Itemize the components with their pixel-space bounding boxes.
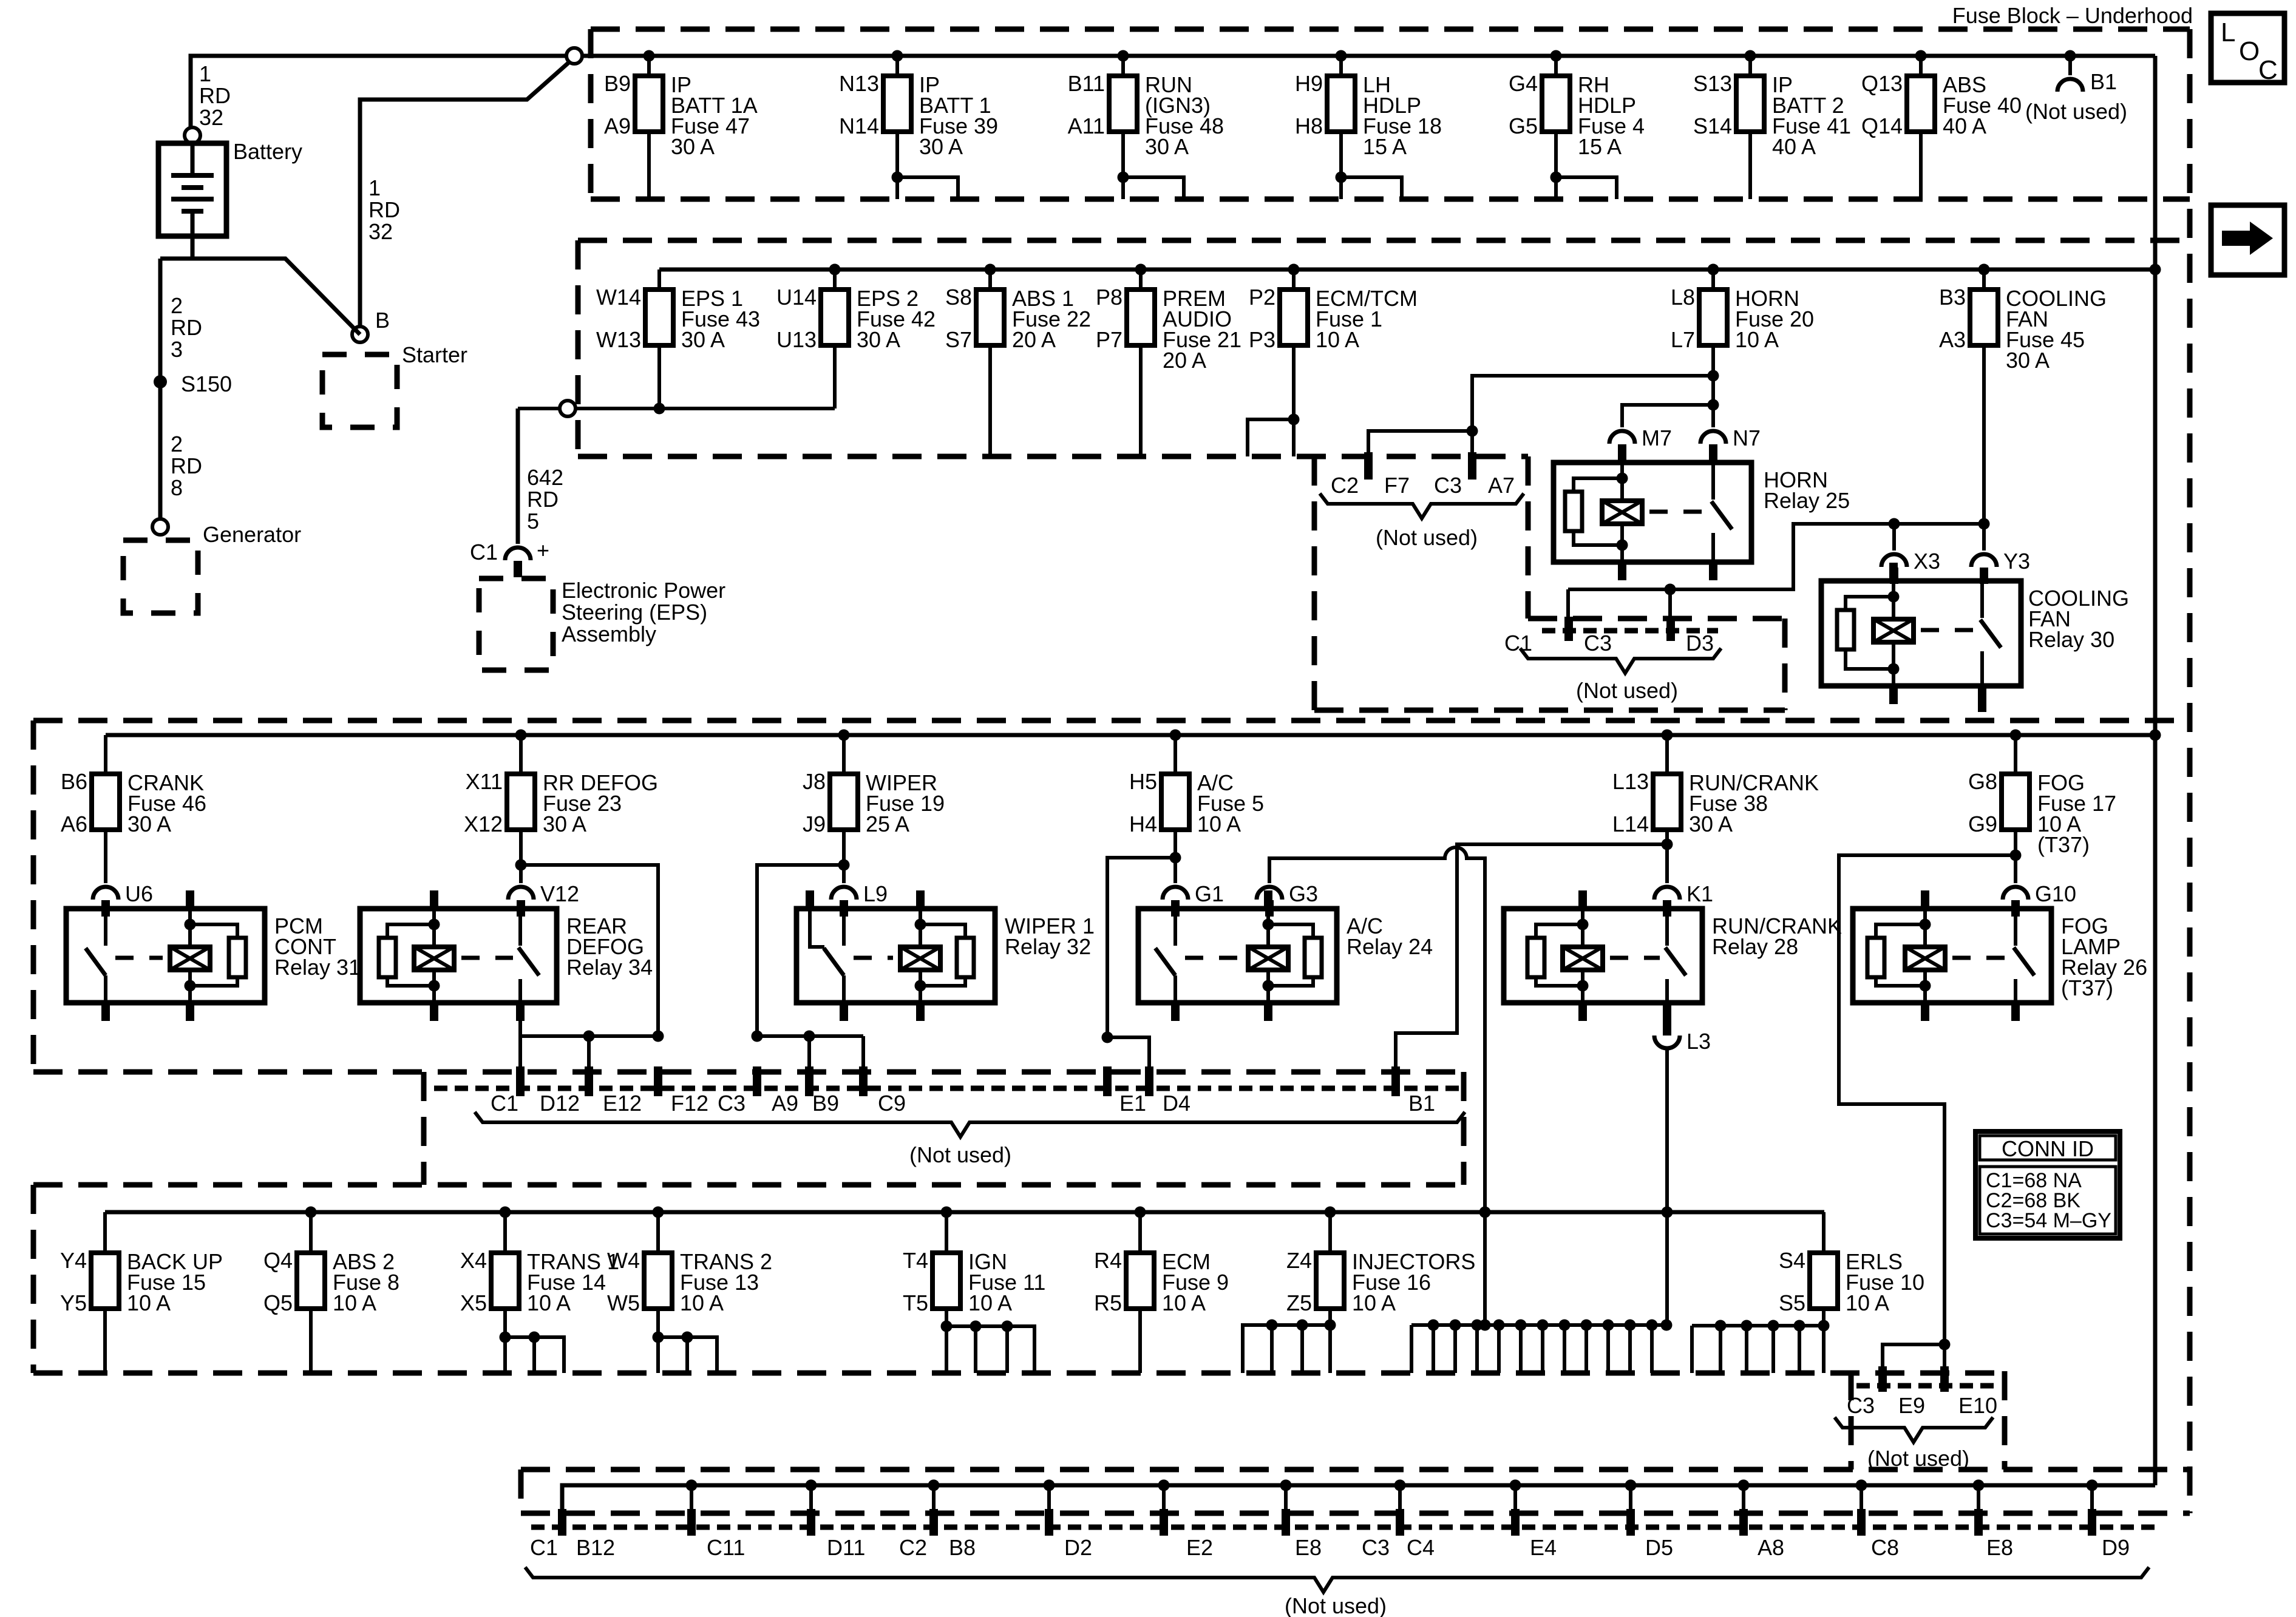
node bottom connector junction E8b <box>1973 1480 1985 1491</box>
node bottom connector junction D9 <box>2087 1480 2098 1491</box>
svg-text:32: 32 <box>369 219 393 244</box>
terminal A8 <box>1739 1509 1748 1536</box>
node row2/row1 feed junction <box>2150 264 2161 276</box>
connector V12 <box>508 887 534 900</box>
E9/E10 box left border <box>1849 1371 1854 1470</box>
svg-text:Q14: Q14 <box>1861 114 1903 138</box>
svg-text:L9: L9 <box>863 881 888 906</box>
svg-text:E8: E8 <box>1295 1535 1322 1560</box>
fuse Fuse 38 (RUN/CRANK) <box>1612 735 1819 836</box>
node bottom bus junction Z4 <box>1325 1207 1336 1218</box>
wire below ABS 2 fuse <box>309 1309 313 1373</box>
node bottom bus junction W4 <box>653 1207 664 1218</box>
svg-text:C1: C1 <box>470 540 498 564</box>
relay RUN/CRANK Relay 28 <box>1504 890 1842 1021</box>
svg-text:A3: A3 <box>1939 327 1966 352</box>
svg-text:A8: A8 <box>1758 1535 1784 1560</box>
svg-text:Electronic Power: Electronic Power <box>562 578 725 603</box>
svg-text:Assembly: Assembly <box>562 622 656 646</box>
fuse Fuse 42 (EPS 2) <box>776 269 936 352</box>
svg-text:W14: W14 <box>596 285 641 310</box>
fuse Fuse 11 (IGN) <box>903 1212 1045 1315</box>
svg-text:10 A: 10 A <box>1162 1290 1206 1315</box>
node row2 bus junction B3 <box>1978 264 1990 276</box>
fuse Fuse 40 (ABS) <box>1861 56 2022 138</box>
svg-text:642: 642 <box>527 465 563 490</box>
terminal D3 <box>1666 617 1675 641</box>
svg-text:20 A: 20 A <box>1012 327 1056 352</box>
node bottom bus junction Q4 <box>305 1207 317 1218</box>
svg-text:CONN ID: CONN ID <box>2002 1136 2094 1161</box>
svg-text:32: 32 <box>199 105 223 130</box>
node bottom connector junction D2 <box>1044 1480 1055 1491</box>
bottom fuse box top border <box>33 1182 1464 1188</box>
node bottom connector junction C11 <box>686 1480 698 1491</box>
svg-text:P7: P7 <box>1096 327 1123 352</box>
wire below INJECTORS fuse with comb <box>1328 1309 1332 1373</box>
svg-text:C3: C3 <box>1362 1535 1390 1560</box>
fuse Fuse 39 (IP BATT 1) <box>839 56 998 159</box>
brace not-used C2/F7/C3/A7 <box>1320 493 1524 518</box>
svg-text:Relay 34: Relay 34 <box>566 955 653 980</box>
fuse block box row1 bottom border <box>591 197 2190 202</box>
wire below BACK UP fuse <box>103 1309 107 1373</box>
svg-text:Relay 32: Relay 32 <box>1005 934 1091 959</box>
svg-text:(Not used): (Not used) <box>2025 99 2127 124</box>
svg-text:L8: L8 <box>1671 285 1695 310</box>
connector M7 <box>1609 431 1635 444</box>
generator box <box>123 540 198 613</box>
connector B1 (not used) <box>2068 56 2072 75</box>
wire below HORN fuse <box>1711 345 1715 427</box>
svg-text:C11: C11 <box>707 1535 745 1560</box>
svg-text:B6: B6 <box>61 769 87 794</box>
svg-text:10 A: 10 A <box>680 1290 724 1315</box>
terminal B9 <box>805 1066 813 1096</box>
svg-text:P2: P2 <box>1249 285 1275 310</box>
svg-text:(Not used): (Not used) <box>909 1142 1011 1167</box>
svg-text:25 A: 25 A <box>866 812 909 836</box>
svg-text:RD: RD <box>199 83 231 108</box>
bottom connector box top border <box>521 1467 2190 1473</box>
wire below Fuse 40 <box>1919 132 1923 199</box>
terminal A9 <box>753 1066 761 1096</box>
wire D12 drop <box>518 1036 522 1066</box>
node row1 bus junction N13 <box>892 50 903 62</box>
svg-text:Starter: Starter <box>402 342 467 367</box>
svg-text:G10: G10 <box>2035 881 2076 906</box>
svg-text:T4: T4 <box>903 1248 928 1273</box>
wire HORN to A7/F7 stubs <box>1472 376 1713 431</box>
not-used connector box C1 pin line <box>1542 628 1718 634</box>
starter box <box>322 354 397 427</box>
node row2 bus junction S8 <box>985 264 996 276</box>
terminal D9 <box>2088 1509 2096 1536</box>
fuse Fuse 43 (EPS 1) <box>596 269 760 352</box>
wire RUN/CRANK branch to B1 stub <box>1396 844 1667 1066</box>
starter B terminal circle <box>352 327 368 342</box>
wire row1 feed down right side <box>2153 56 2158 1485</box>
terminal D12 <box>516 1066 525 1096</box>
svg-text:U14: U14 <box>776 285 817 310</box>
terminal E8b <box>1974 1509 1983 1536</box>
wire below Fuse 48 with stub <box>1121 132 1125 199</box>
node row1 bus junction B1 <box>2065 50 2076 62</box>
fuse block box row1 left border <box>588 29 594 199</box>
terminal C3 <box>1564 617 1573 641</box>
splice circle at fuse block entry <box>566 48 582 64</box>
svg-text:W4: W4 <box>607 1248 640 1273</box>
node bottom connector junction D11 <box>806 1480 817 1491</box>
relay box section left border <box>31 720 36 1072</box>
svg-text:W5: W5 <box>607 1290 640 1315</box>
not-used connector box C1 top border <box>1528 616 1785 622</box>
svg-text:30 A: 30 A <box>681 327 725 352</box>
svg-text:(Not used): (Not used) <box>1867 1446 1969 1471</box>
wire below CRANK fuse <box>104 830 107 883</box>
svg-text:G5: G5 <box>1509 114 1538 138</box>
svg-text:U13: U13 <box>776 327 817 352</box>
svg-text:S4: S4 <box>1779 1248 1805 1273</box>
wire below A/C fuse <box>1173 830 1177 883</box>
bottom fuse box bottom border <box>33 1371 2005 1376</box>
svg-text:10 A: 10 A <box>1197 812 1241 836</box>
wire below IGN fuse with comb <box>945 1309 948 1373</box>
svg-text:C1: C1 <box>1504 631 1532 656</box>
svg-text:20 A: 20 A <box>1163 348 1206 373</box>
LOC legend box <box>2211 13 2284 85</box>
wire A/C branch to E1/D4 <box>1107 858 1175 1037</box>
svg-text:D9: D9 <box>2102 1535 2130 1560</box>
svg-text:10 A: 10 A <box>527 1290 571 1315</box>
svg-text:N14: N14 <box>839 114 879 138</box>
node EPS output junction <box>654 403 665 415</box>
terminal A7 <box>1468 452 1476 480</box>
wire EPS1-EPS2 link to EPS assembly <box>518 407 835 410</box>
svg-text:X4: X4 <box>460 1248 487 1273</box>
svg-text:10 A: 10 A <box>1846 1290 1889 1315</box>
wire cooling fan switch output stub <box>1978 704 1986 712</box>
connector G10 <box>2003 887 2028 900</box>
svg-text:K1: K1 <box>1686 881 1713 906</box>
svg-text:X12: X12 <box>464 812 503 836</box>
wire below Fuse 41 <box>1748 132 1752 199</box>
connector C1 + EPS assembly <box>505 547 531 560</box>
svg-text:A11: A11 <box>1068 114 1105 138</box>
svg-text:10 A: 10 A <box>333 1290 376 1315</box>
svg-text:D5: D5 <box>1645 1535 1673 1560</box>
connector K1 <box>1654 887 1680 900</box>
node row1 bus junction S13 <box>1745 50 1756 62</box>
svg-text:C3: C3 <box>1584 631 1612 656</box>
svg-text:N13: N13 <box>839 71 879 96</box>
brace not-used stub row <box>475 1112 1465 1137</box>
svg-text:W13: W13 <box>596 327 641 352</box>
svg-text:(Not used): (Not used) <box>1376 525 1478 550</box>
relay REAR DEFOG Relay 34 <box>360 890 653 1021</box>
svg-text:(Not used): (Not used) <box>1576 678 1678 703</box>
terminal B1 <box>1391 1066 1400 1096</box>
svg-text:RD: RD <box>527 487 559 512</box>
svg-text:Steering (EPS): Steering (EPS) <box>562 600 707 625</box>
svg-text:B3: B3 <box>1939 285 1966 310</box>
wire RR DEFOG branch to F12 <box>521 865 658 1036</box>
svg-text:X11: X11 <box>466 769 503 794</box>
svg-text:B1: B1 <box>1408 1091 1435 1116</box>
svg-text:A9: A9 <box>604 114 631 138</box>
svg-text:2: 2 <box>171 432 183 456</box>
svg-text:8: 8 <box>171 475 183 500</box>
wire WIPER branch to A9 <box>757 865 844 1036</box>
svg-text:10 A: 10 A <box>968 1290 1012 1315</box>
svg-text:D4: D4 <box>1163 1091 1190 1116</box>
fuse Fuse 19 (WIPER) <box>803 735 945 836</box>
svg-text:15 A: 15 A <box>1578 134 1622 159</box>
bottom connector box bottom border <box>521 1511 2190 1516</box>
terminal E8 <box>1282 1509 1290 1536</box>
svg-text:S150: S150 <box>181 371 232 396</box>
node bottom connector junction B8 <box>928 1480 940 1491</box>
row1 bus wire <box>582 54 2155 58</box>
row2 bus wire <box>659 268 2155 272</box>
svg-text:X5: X5 <box>460 1290 487 1315</box>
svg-text:Relay 24: Relay 24 <box>1347 934 1433 959</box>
svg-text:10 A: 10 A <box>127 1290 171 1315</box>
wire D3 stub drop <box>1668 589 1672 617</box>
wire to EPS assembly C1 <box>516 408 520 544</box>
svg-text:Z5: Z5 <box>1286 1290 1312 1315</box>
bottom fuse box left border <box>31 1185 36 1373</box>
brace not-used C1/C3/D3 <box>1520 648 1721 673</box>
E9/E10 fine pin line <box>1856 1383 2000 1389</box>
svg-text:40 A: 40 A <box>1772 134 1816 159</box>
wire below Fuse 47 <box>647 132 651 199</box>
svg-text:Q4: Q4 <box>263 1248 293 1273</box>
svg-text:Generator: Generator <box>203 522 301 547</box>
terminal C11 <box>687 1509 696 1536</box>
bottom connector box left border <box>518 1470 524 1513</box>
relay PCM CONT Relay 31 <box>66 890 361 1021</box>
svg-text:H5: H5 <box>1129 769 1157 794</box>
svg-text:S5: S5 <box>1779 1290 1805 1315</box>
wire below ECM/TCM fuse with stub <box>1292 345 1296 456</box>
svg-text:30 A: 30 A <box>1145 134 1189 159</box>
wire D2 drop <box>1047 1485 1051 1509</box>
connector Y3 <box>1971 554 1997 567</box>
svg-text:L: L <box>2221 18 2235 47</box>
bottom connector bus wire <box>562 1485 2155 1509</box>
wire B9 drop <box>807 1036 811 1066</box>
svg-text:C9: C9 <box>878 1091 906 1116</box>
fuse block right border <box>2187 29 2193 1513</box>
wire splice to starter B <box>360 62 569 327</box>
brace not-used E9/E10 <box>1835 1417 1993 1442</box>
svg-text:D2: D2 <box>1064 1535 1092 1560</box>
middle bus wire <box>106 733 2155 737</box>
fuse Fuse 47 (IP BATT 1A) <box>604 56 758 159</box>
svg-text:RD: RD <box>171 453 202 478</box>
svg-text:E4: E4 <box>1530 1535 1557 1560</box>
svg-text:B: B <box>375 308 390 333</box>
svg-text:R4: R4 <box>1094 1248 1122 1273</box>
splice S150 <box>154 375 167 388</box>
wire D9 drop <box>2090 1485 2094 1509</box>
terminal E2 <box>1160 1509 1168 1536</box>
svg-text:Relay 31: Relay 31 <box>274 955 361 980</box>
wire below WIPER fuse <box>842 830 846 883</box>
wire G3 to bottom bus <box>1269 847 1485 1325</box>
terminal E1 <box>1103 1066 1112 1096</box>
fuse Fuse 16 (INJECTORS) <box>1286 1212 1475 1315</box>
wire Y3 drop <box>1982 524 1986 551</box>
fuse Fuse 1 (ECM/TCM) <box>1249 269 1418 352</box>
svg-text:E8: E8 <box>1986 1535 2013 1560</box>
wire E9 drop <box>1883 1344 1944 1366</box>
svg-text:C8: C8 <box>1871 1535 1899 1560</box>
connector L3 <box>1654 1036 1680 1048</box>
relay COOLING FAN Relay 30 <box>1821 563 2129 704</box>
fuse Fuse 17 (FOG) <box>1968 735 2116 857</box>
node HORN output junction A7 branch <box>1708 370 1719 382</box>
wire below COOLING FAN fuse <box>1982 345 1986 524</box>
wire stub gather A9-C9 <box>757 1034 863 1038</box>
not-used connector box C1 right border <box>1782 619 1788 710</box>
svg-text:S14: S14 <box>1693 114 1732 138</box>
node E1 junction <box>1102 1032 1113 1043</box>
svg-text:G4: G4 <box>1509 71 1538 96</box>
svg-text:RD: RD <box>369 197 400 222</box>
node X3 junction <box>1889 518 1900 530</box>
terminal E12 <box>585 1066 593 1096</box>
CONN ID table <box>1975 1131 2120 1238</box>
terminal D2 <box>1045 1509 1053 1536</box>
fuse Fuse 46 (CRANK) <box>61 735 206 836</box>
svg-text:F12: F12 <box>671 1091 708 1116</box>
svg-text:D11: D11 <box>827 1535 865 1560</box>
svg-text:G3: G3 <box>1289 881 1318 906</box>
svg-text:E2: E2 <box>1186 1535 1213 1560</box>
wire E4 drop <box>1513 1485 1517 1509</box>
relay box section bottom border <box>33 1070 1464 1075</box>
wire E8 drop <box>1284 1485 1288 1509</box>
fuse Fuse 15 (BACK UP) <box>60 1212 223 1315</box>
wire E8b drop <box>1977 1485 1980 1509</box>
fuse Fuse 5 (A/C) <box>1129 735 1264 836</box>
node bottom connector junction E2 <box>1158 1480 1170 1491</box>
battery positive terminal circle <box>185 127 200 143</box>
terminal F12 <box>654 1066 662 1096</box>
svg-text:30 A: 30 A <box>857 327 900 352</box>
node E10 junction <box>1939 1339 1951 1351</box>
node row2 bus junction U14 <box>829 264 841 276</box>
node Y3 junction <box>1978 518 1990 530</box>
svg-text:H9: H9 <box>1295 71 1323 96</box>
wire RUN/CRANK switch to L3 <box>1663 1020 1671 1036</box>
svg-text:(T37): (T37) <box>2037 832 2090 857</box>
node middle bus junction X11 <box>515 730 527 741</box>
node middle bus feed junction <box>2150 730 2161 741</box>
wire A8 drop <box>1742 1485 1745 1509</box>
splice circle EPS harness exit <box>560 401 576 416</box>
fuse Fuse 22 (ABS 1) <box>945 269 1091 352</box>
svg-text:L13: L13 <box>1612 769 1649 794</box>
svg-text:N7: N7 <box>1733 425 1761 450</box>
terminal D11 <box>807 1509 815 1536</box>
node bottom connector junction D5 <box>1625 1480 1637 1491</box>
node bottom bus junction X4 <box>500 1207 511 1218</box>
relay WIPER 1 Relay 32 <box>796 890 1095 1021</box>
wire C3 stub drop <box>1566 589 1570 617</box>
E9/E10 box right border <box>2002 1371 2008 1470</box>
terminal F7 <box>1364 452 1373 480</box>
wire C4 drop <box>1398 1485 1402 1509</box>
wire E2 drop <box>1162 1485 1166 1509</box>
fuse block box row2 left border <box>576 240 581 456</box>
svg-text:C4: C4 <box>1407 1535 1435 1560</box>
relay box section top border <box>33 718 2190 724</box>
wire X3 drop <box>1892 524 1896 551</box>
svg-text:5: 5 <box>527 509 539 534</box>
node bottom connector junction C4 <box>1394 1480 1406 1491</box>
stub row fine pin line <box>434 1086 1460 1091</box>
svg-text:Y4: Y4 <box>60 1248 87 1273</box>
wire battery feed to bus <box>191 56 574 135</box>
wire below FOG fuse <box>2014 830 2017 883</box>
svg-text:A7: A7 <box>1488 473 1515 498</box>
svg-text:U6: U6 <box>125 881 153 906</box>
svg-text:E9: E9 <box>1898 1393 1925 1418</box>
stub row box left border <box>421 1072 427 1185</box>
node bottom bus G3 junction <box>1479 1207 1491 1218</box>
terminal D4 <box>1145 1066 1153 1096</box>
wire below RR DEFOG fuse <box>519 830 523 883</box>
node middle bus junction J8 <box>838 730 850 741</box>
svg-text:C1: C1 <box>491 1091 518 1116</box>
fuse Fuse 9 (ECM) <box>1094 1212 1229 1315</box>
svg-text:C2: C2 <box>1331 473 1359 498</box>
fuse block box row2 top border <box>578 238 2190 243</box>
connector U6 <box>93 887 118 900</box>
wire below Fuse 18 with stub <box>1339 132 1343 199</box>
node bottom bus L3 junction <box>1662 1207 1673 1218</box>
connector X3 <box>1881 554 1907 567</box>
not-used connector box C2/C1 left border <box>1312 456 1317 710</box>
wire C9 drop <box>861 1036 865 1066</box>
fuse block box row1 top border <box>591 27 2190 32</box>
wire FOG branch to E9/E10 <box>1839 855 2016 1366</box>
svg-text:(T37): (T37) <box>2061 975 2113 1000</box>
svg-text:Q5: Q5 <box>263 1290 293 1315</box>
svg-text:F7: F7 <box>1384 473 1410 498</box>
fuse Fuse 10 (ERLS) <box>1779 1212 1924 1315</box>
wire D5 drop <box>1629 1485 1632 1509</box>
fuse block box row2 bottom border <box>578 454 1528 459</box>
wire below ERLS fuse with comb <box>1822 1309 1826 1373</box>
connector G3 <box>1257 887 1282 900</box>
svg-text:30 A: 30 A <box>2006 348 2050 373</box>
svg-text:C3: C3 <box>1434 473 1462 498</box>
svg-text:D3: D3 <box>1686 631 1714 656</box>
fuse Fuse 8 (ABS 2) <box>263 1212 399 1315</box>
wire L3 to bottom bus <box>1665 1048 1669 1325</box>
svg-text:(Not used): (Not used) <box>1285 1593 1387 1617</box>
svg-text:B11: B11 <box>1068 71 1105 96</box>
svg-text:Z4: Z4 <box>1286 1248 1312 1273</box>
svg-text:Q13: Q13 <box>1861 71 1903 96</box>
svg-text:B8: B8 <box>949 1535 976 1560</box>
svg-text:E1: E1 <box>1119 1091 1146 1116</box>
node bottom bus junction R4 <box>1135 1207 1146 1218</box>
